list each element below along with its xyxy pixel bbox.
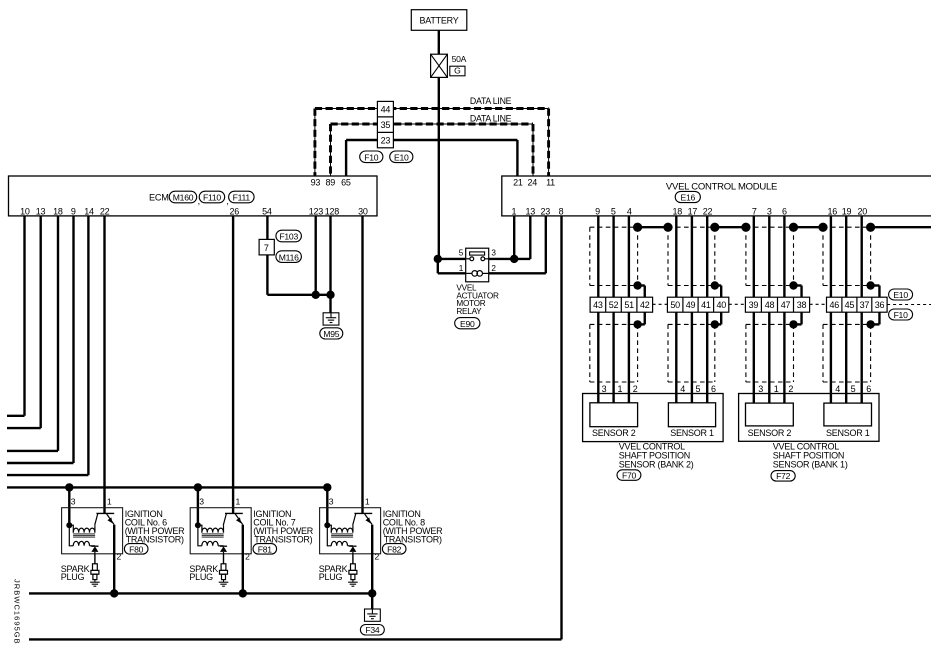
- svg-text:93: 93: [311, 178, 321, 188]
- node ECM top pins 93 89 65: [311, 178, 351, 188]
- wire VVEL pin 8 to bottom left exit: [29, 216, 562, 640]
- transistor ignition coil No.7 (with power transistor): [190, 497, 251, 562]
- svg-text:1: 1: [459, 264, 464, 273]
- svg-text:PLUG: PLUG: [189, 572, 213, 582]
- svg-text:2: 2: [491, 264, 496, 273]
- svg-text:BATTERY: BATTERY: [420, 16, 459, 26]
- svg-text:5: 5: [459, 249, 464, 258]
- wire junction to relay pin 1: [438, 259, 466, 273]
- svg-text:TRANSISTOR): TRANSISTOR): [254, 534, 312, 544]
- connector row 39/48/47/38: [745, 297, 809, 312]
- svg-text:2: 2: [117, 551, 122, 561]
- node junction pin 128: [326, 291, 334, 299]
- wire data line 1 (ECM 93 to VVEL 11): [315, 109, 549, 177]
- wire ECM pin 14 exit left: [7, 216, 88, 475]
- sensor VVEL control shaft position sensor bank 1: [739, 394, 879, 442]
- svg-text:F111: F111: [233, 193, 251, 203]
- svg-text:E90: E90: [460, 319, 475, 329]
- node relay text label: [456, 284, 499, 316]
- wire coil 6 pin 2 to spark bus: [113, 525, 115, 594]
- node shield bus junction dots group 2: [663, 223, 719, 232]
- svg-text:F82: F82: [387, 544, 402, 554]
- wire sensor harness group 1 signal wires: [598, 216, 629, 403]
- svg-text:35: 35: [381, 120, 391, 130]
- wire relay pin 2 to VVEL pin 23: [489, 216, 546, 273]
- svg-text:17: 17: [688, 207, 698, 217]
- svg-text:47: 47: [781, 300, 791, 310]
- wire relay pin 3 to VVEL pins 1 and 13: [489, 216, 531, 259]
- svg-text:8: 8: [559, 207, 564, 217]
- node power bus junction coil 7: [194, 483, 202, 491]
- svg-text:4: 4: [627, 207, 632, 217]
- node shield box group 1 lower: [590, 324, 638, 382]
- node shield bus junction dots group 3: [741, 223, 798, 232]
- svg-text:2: 2: [633, 384, 638, 394]
- node shield bus junction dots group 4: [818, 223, 875, 232]
- svg-text:DATA LINE: DATA LINE: [470, 96, 512, 106]
- wire coil 7 HT lead to spark plug: [223, 554, 225, 564]
- svg-text:52: 52: [609, 300, 619, 310]
- svg-text:1: 1: [618, 384, 623, 394]
- svg-text:2: 2: [375, 551, 380, 561]
- wire fuse to relay junction: [438, 77, 440, 259]
- svg-text:TRANSISTOR): TRANSISTOR): [126, 534, 184, 544]
- wire ECM pin 128 to ground M95: [329, 216, 331, 313]
- svg-text:19: 19: [842, 207, 852, 217]
- svg-text:M95: M95: [323, 329, 339, 339]
- node ignition coil 6 label: [125, 509, 185, 545]
- node spark bus junction coil 8: [368, 589, 376, 597]
- wire ECM 65 to VVEL 21: [346, 140, 517, 176]
- node spark plug 7 label: [189, 564, 218, 582]
- node ignition coil 8 label: [383, 509, 443, 545]
- svg-text:SENSOR 1: SENSOR 1: [670, 428, 714, 438]
- svg-text:3: 3: [199, 497, 204, 507]
- wire spark plug return bus: [29, 592, 372, 594]
- node shield box group 2 lower: [668, 324, 715, 382]
- wire ECM pin 13 exit left: [7, 216, 41, 428]
- svg-text:3: 3: [758, 384, 763, 394]
- svg-text:18: 18: [673, 207, 683, 217]
- transistor ignition coil No.8 (with power transistor): [320, 497, 381, 562]
- svg-text:1: 1: [107, 497, 112, 507]
- connector pins 44/35/23: [377, 101, 393, 147]
- ground F34: [360, 609, 384, 635]
- svg-text:2: 2: [245, 551, 250, 561]
- transistor ignition coil No.6 (with power transistor): [62, 497, 123, 562]
- svg-text:1: 1: [365, 497, 370, 507]
- connector row 46/45/37/36: [827, 297, 888, 312]
- node shield bus junction dots group 1: [633, 223, 642, 232]
- svg-text:6: 6: [711, 384, 716, 394]
- wire bus to coil 7 pin 3: [197, 487, 199, 525]
- wire connector 7 to ground junction: [267, 255, 330, 295]
- svg-text:F70: F70: [622, 470, 637, 480]
- svg-text:PLUG: PLUG: [61, 572, 85, 582]
- svg-text:1: 1: [512, 207, 517, 217]
- node sensor pin labels group 3: [758, 384, 793, 394]
- node VVEL bottom pins: [512, 207, 868, 217]
- node power bus junction coil 6: [65, 483, 73, 491]
- wire coil 8 HT lead to spark plug: [352, 554, 354, 564]
- wire ECM pin 26 to ignition coil No.7 pin 1: [232, 216, 234, 514]
- svg-text:45: 45: [845, 300, 855, 310]
- node sensor pin labels group 4: [835, 384, 871, 394]
- fuse 50A G: [431, 54, 467, 78]
- node battery junction: [434, 255, 442, 263]
- svg-text:40: 40: [716, 300, 726, 310]
- connector F81 oval: [253, 544, 277, 555]
- connector F10 oval right: [889, 309, 913, 320]
- svg-text:123: 123: [309, 207, 324, 217]
- wire ECM pin 10 exit left: [7, 216, 25, 416]
- svg-text:M116: M116: [279, 252, 299, 262]
- svg-text:SENSOR 2: SENSOR 2: [748, 428, 792, 438]
- connector F80 oval: [124, 544, 148, 555]
- node shield box group 3 lower: [746, 324, 794, 382]
- node sensor pin labels group 2: [680, 384, 716, 394]
- node sensor pin labels group 1: [602, 384, 638, 394]
- connector row 43/52/51/42: [590, 297, 653, 312]
- wire coil 6 HT lead to spark plug: [94, 554, 96, 564]
- svg-text:F34: F34: [365, 625, 380, 635]
- node spark bus junction coil 6: [110, 589, 118, 597]
- wire data line 2 (ECM 89 to VVEL 24): [331, 124, 534, 176]
- svg-text:E16: E16: [681, 193, 696, 203]
- svg-text:SENSOR (BANK 1): SENSOR (BANK 1): [773, 459, 848, 469]
- svg-text:3: 3: [491, 249, 496, 258]
- svg-text:F110: F110: [203, 193, 221, 203]
- svg-text:21: 21: [513, 178, 523, 188]
- svg-text:22: 22: [703, 207, 713, 217]
- wire shield drain group 1 through connector: [633, 281, 644, 328]
- connector E10 oval right: [889, 289, 913, 300]
- svg-text:JRBWC1695GB: JRBWC1695GB: [13, 579, 22, 645]
- node bank1 label: [773, 441, 848, 469]
- svg-text:M160: M160: [173, 193, 194, 203]
- node shield box group 2 upper: [668, 227, 715, 285]
- node spark plug 8 label: [319, 564, 348, 582]
- svg-text:13: 13: [526, 207, 536, 217]
- svg-text:18: 18: [53, 207, 63, 217]
- svg-text:13: 13: [36, 207, 46, 217]
- wire ECM pin 30 to ignition coil No.8 pin 1: [361, 216, 363, 514]
- svg-text:4: 4: [680, 384, 685, 394]
- wire sensor harness group 3 signal wires: [754, 216, 785, 403]
- connector F103 oval: [276, 230, 302, 242]
- svg-text:F10: F10: [364, 153, 379, 163]
- svg-text:SENSOR 1: SENSOR 1: [826, 428, 870, 438]
- svg-text:E10: E10: [394, 153, 409, 163]
- node bank2 label: [619, 441, 694, 469]
- svg-text:7: 7: [264, 243, 269, 253]
- relay E90 VVEL actuator motor relay: [466, 248, 489, 282]
- svg-text:41: 41: [701, 300, 711, 310]
- svg-text:10: 10: [20, 207, 30, 217]
- node ECM bottom pins: [20, 207, 368, 217]
- connector pin 7 (F103/M116): [259, 239, 274, 255]
- svg-text:5: 5: [851, 384, 856, 394]
- svg-text:F81: F81: [258, 544, 273, 554]
- svg-text:39: 39: [749, 300, 759, 310]
- svg-text:48: 48: [765, 300, 775, 310]
- svg-text:9: 9: [595, 207, 600, 217]
- svg-text:5: 5: [696, 384, 701, 394]
- svg-text:F80: F80: [129, 544, 144, 554]
- svg-text:9: 9: [71, 207, 76, 217]
- svg-text:44: 44: [381, 105, 391, 115]
- node shield box group 1 upper: [590, 227, 638, 285]
- svg-text:49: 49: [686, 300, 696, 310]
- svg-text:38: 38: [797, 300, 807, 310]
- node spark bus junction coil 7: [239, 589, 247, 597]
- svg-text:6: 6: [866, 384, 871, 394]
- svg-text:3: 3: [602, 384, 607, 394]
- node spark plug 6 label: [61, 564, 90, 582]
- node junction VVEL pin 1: [510, 255, 518, 263]
- wire sensor harness group 2 signal wires: [676, 216, 707, 403]
- svg-text:23: 23: [540, 207, 550, 217]
- wire shield drain group 4 through connector: [866, 281, 879, 328]
- wire ECM pin 123 down: [315, 216, 317, 295]
- svg-text:2: 2: [788, 384, 793, 394]
- svg-text:26: 26: [229, 207, 239, 217]
- node VVEL top pins 21 24 11: [513, 178, 555, 188]
- svg-text:46: 46: [829, 300, 839, 310]
- node DATA LINE labels: [470, 96, 512, 124]
- node power bus junction coil 8: [323, 483, 331, 491]
- svg-text:30: 30: [358, 207, 368, 217]
- svg-text:E10: E10: [893, 290, 908, 300]
- svg-text:SENSOR 2: SENSOR 2: [592, 428, 636, 438]
- connector E90 oval: [455, 318, 480, 329]
- wire coil 7 pin 2 to spark bus: [242, 525, 244, 594]
- battery B1: [411, 10, 467, 31]
- svg-text:14: 14: [84, 207, 94, 217]
- wire shield drain group 3 through connector: [789, 281, 801, 328]
- svg-text:43: 43: [593, 300, 603, 310]
- svg-text:54: 54: [262, 207, 272, 217]
- wire junction to relay pin 5: [438, 258, 466, 260]
- svg-text:F72: F72: [776, 471, 791, 481]
- svg-text:PLUG: PLUG: [319, 572, 343, 582]
- spark plug 7: [219, 564, 229, 586]
- wire ECM pin 18 exit left: [7, 216, 58, 451]
- svg-text:TRANSISTOR): TRANSISTOR): [384, 534, 442, 544]
- op-amp ECM module: [9, 176, 378, 216]
- svg-text:42: 42: [640, 300, 650, 310]
- wire shield drain bus segments: [638, 226, 931, 228]
- svg-text:20: 20: [857, 207, 867, 217]
- svg-text:1: 1: [236, 497, 241, 507]
- connector F10 (left oval): [360, 151, 383, 163]
- spark plug 6: [90, 564, 100, 586]
- connector F70 oval: [617, 470, 641, 481]
- svg-text:51: 51: [624, 300, 634, 310]
- svg-text:16: 16: [828, 207, 838, 217]
- svg-text:89: 89: [325, 178, 335, 188]
- node ignition coil 7 label: [253, 509, 313, 545]
- node relay pin labels: [459, 249, 497, 273]
- wire ECM pin 22 to ignition coil No.6 pin 1: [103, 216, 105, 514]
- svg-text:3: 3: [329, 497, 334, 507]
- svg-text:1: 1: [774, 384, 779, 394]
- connector F82 oval: [382, 544, 406, 555]
- op-amp VVEL control module: [502, 176, 931, 216]
- svg-text:F103: F103: [279, 232, 298, 242]
- sensor VVEL control shaft position sensor bank 2: [583, 394, 724, 442]
- svg-text:50A: 50A: [452, 54, 467, 64]
- wire junction to ground F34: [371, 593, 373, 609]
- connector F72 oval: [771, 471, 795, 482]
- wire dashed connector links: [653, 303, 931, 305]
- node shield box group 4 lower: [823, 324, 871, 382]
- wire ignition power bus: [7, 486, 327, 488]
- svg-text:F10: F10: [894, 310, 909, 320]
- wire ECM pin 9 exit left: [7, 216, 74, 463]
- svg-text:3: 3: [71, 497, 76, 507]
- svg-text:RELAY: RELAY: [456, 307, 482, 316]
- connector M116 oval: [276, 251, 302, 263]
- wire battery to fuse: [438, 30, 440, 54]
- svg-text:50: 50: [670, 300, 680, 310]
- wire coil 8 pin 2 to spark bus: [371, 525, 373, 594]
- svg-text:23: 23: [381, 136, 391, 146]
- spark plug 8: [348, 564, 358, 586]
- wire bus to coil 6 pin 3: [68, 487, 70, 525]
- svg-text:3: 3: [767, 207, 772, 217]
- svg-text:G: G: [454, 66, 461, 76]
- svg-text:65: 65: [341, 178, 351, 188]
- svg-text:7: 7: [752, 207, 757, 217]
- svg-text:37: 37: [860, 300, 870, 310]
- node junction pin 123: [312, 291, 320, 299]
- svg-text:36: 36: [875, 300, 885, 310]
- svg-text:128: 128: [325, 207, 340, 217]
- svg-text:DATA LINE: DATA LINE: [470, 113, 512, 123]
- svg-text:11: 11: [546, 178, 555, 188]
- svg-text:4: 4: [835, 384, 840, 394]
- node shield box group 4 upper: [823, 227, 871, 285]
- ground M95: [320, 313, 343, 339]
- svg-text:6: 6: [782, 207, 787, 217]
- svg-text:24: 24: [528, 178, 538, 188]
- svg-text:SENSOR (BANK 2): SENSOR (BANK 2): [619, 459, 694, 469]
- svg-text:ECM: ECM: [149, 192, 169, 202]
- svg-text:5: 5: [611, 207, 616, 217]
- svg-text:22: 22: [100, 207, 110, 217]
- wire sensor harness group 4 signal wires: [831, 216, 862, 403]
- connector E10 (right oval): [390, 151, 413, 163]
- wire bus to coil 8 pin 3: [326, 487, 328, 525]
- node shield box group 3 upper: [746, 227, 794, 285]
- connector row 50/49/41/40: [667, 297, 728, 312]
- wire shield drain group 2 through connector: [711, 281, 722, 328]
- wire ECM pin 54 to connector 7: [266, 216, 268, 240]
